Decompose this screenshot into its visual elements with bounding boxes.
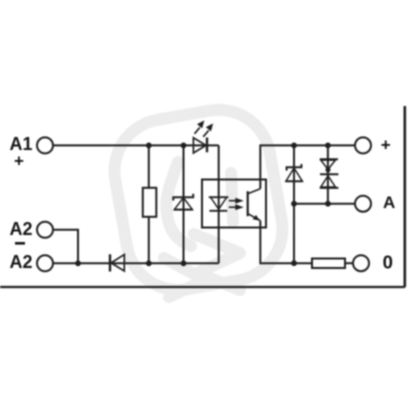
junction: bottom rail / input zener column xyxy=(181,260,187,266)
optocoupler U1 phototransistor xyxy=(248,189,261,221)
wire: A line xyxy=(294,203,355,205)
terminal A2 upper xyxy=(37,222,53,238)
wire: optocoupler LED column down to bottom rail xyxy=(218,145,220,263)
svg-text:+: + xyxy=(381,136,391,155)
wire: output resistor to terminal 0 xyxy=(345,262,353,264)
suppressor diode D5 (bidirectional TVS) xyxy=(320,159,339,188)
optocoupler U1 light arrows xyxy=(229,199,242,210)
wire: output zener column to bottom rail xyxy=(293,145,295,263)
junction: output bottom rail / output zener column xyxy=(291,260,297,266)
zener diode D4 (output, cathode up) xyxy=(286,164,303,181)
optocoupler U1 box xyxy=(202,180,266,228)
terminal A xyxy=(355,196,371,212)
junction: bottom rail / resistor column xyxy=(146,260,152,266)
wire: bottom rail from A2 through D1 to optocoupler column xyxy=(53,262,219,264)
junction: A line / output zener column xyxy=(291,201,297,207)
diode D1 (series, pointing left) xyxy=(110,254,124,271)
svg-text:A2: A2 xyxy=(10,252,33,272)
optocoupler U1 internal LED xyxy=(209,197,229,211)
terminal + xyxy=(355,137,371,153)
wire: phototransistor collector to output top rail xyxy=(260,145,355,188)
wire: input zener column xyxy=(183,145,185,263)
terminal A2 lower xyxy=(37,255,53,271)
wire: A2 upper jumper xyxy=(53,230,78,263)
zener diode D2 (input suppressor, cathode up) xyxy=(173,194,193,210)
junction: bottom rail / A2 jumper xyxy=(75,260,81,266)
junction: TVS midpoint xyxy=(326,167,331,172)
junction: top rail / input zener column xyxy=(181,143,187,149)
terminal 0 xyxy=(353,255,369,271)
junction: A line / TVS column xyxy=(325,201,331,207)
svg-text:+: + xyxy=(14,152,24,171)
svg-text:A2: A2 xyxy=(10,219,33,239)
wire: resistor column top xyxy=(148,145,150,187)
svg-text:A: A xyxy=(383,193,395,212)
resistor R2 (output) xyxy=(312,259,345,269)
watermark logo xyxy=(106,102,290,299)
wire: resistor column bottom xyxy=(148,217,150,263)
label - (input) xyxy=(15,242,25,245)
wire: input top rail from A1 through LED to corner xyxy=(53,144,219,146)
terminal A1 xyxy=(37,137,53,153)
junction: top rail / resistor column xyxy=(146,143,152,149)
wire: phototransistor emitter down to output bottom rail xyxy=(260,221,312,264)
junction: output top rail / output zener column xyxy=(291,143,297,149)
frame right border xyxy=(403,106,406,287)
junction: output top rail / TVS column xyxy=(325,143,331,149)
resistor R1 xyxy=(143,188,157,217)
LED D3 indicator xyxy=(193,138,207,154)
LED D3 emission arrows xyxy=(195,121,213,137)
wire: TVS column xyxy=(327,145,329,203)
svg-text:0: 0 xyxy=(383,251,393,272)
frame bottom border xyxy=(0,286,405,288)
